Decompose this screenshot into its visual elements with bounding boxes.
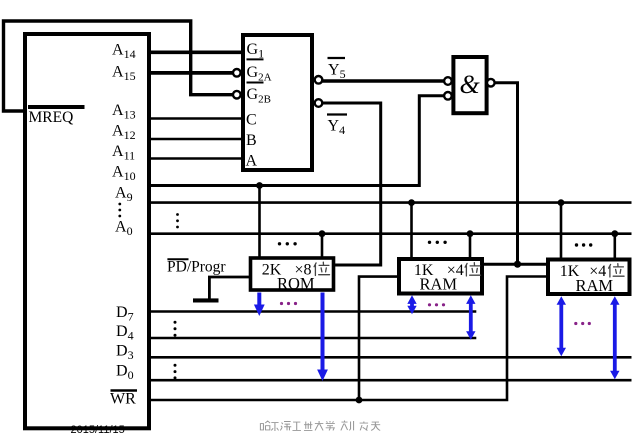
wire A14 to decoder G1	[149, 50, 243, 54]
RAM chip U6 box	[548, 260, 630, 295]
svg-text:WR: WR	[110, 391, 136, 408]
decoder pin label B	[246, 132, 257, 149]
svg-text:RAM: RAM	[420, 275, 458, 294]
wire A13 to decoder C	[149, 117, 243, 120]
net label Y4 (active low)	[327, 115, 347, 138]
inversion bubble at output Y4	[315, 99, 323, 107]
decoder pin label G1	[247, 41, 265, 61]
inversion bubble at G2A input	[233, 69, 241, 77]
ellipsis dots between D7 and D4 lines	[174, 321, 177, 337]
junction WR to RAM1 write enable	[356, 397, 363, 404]
wire WR up to RAM1 write enable	[359, 277, 399, 400]
ROM data arrow to D7	[254, 293, 265, 317]
ROM label ROM	[277, 274, 315, 293]
RAM1 data arrow to D4 (bidirectional)	[466, 295, 475, 340]
wire ROM PD pin to ground	[209, 277, 250, 299]
pin label D0	[116, 363, 134, 383]
pin label D3	[116, 343, 134, 363]
wire D0 bus line	[149, 379, 632, 382]
wire D7 bus line	[149, 310, 476, 313]
wire A10 bus line	[149, 184, 419, 187]
decoder pin label G2B (active low)	[247, 83, 271, 106]
net label PD/Progr (PD active low)	[167, 259, 226, 276]
svg-text:ROM: ROM	[277, 274, 315, 293]
wire AND output down to RAM chip selects	[494, 83, 517, 265]
wire Y4 from decoder down to ROM chip select	[322, 103, 381, 265]
inversion bubble AND output	[487, 79, 495, 87]
ground	[193, 298, 219, 302]
ROM label 2K x 8 bit	[262, 262, 330, 279]
pin label A10	[112, 164, 136, 184]
svg-text:MREQ: MREQ	[29, 109, 74, 126]
ellipsis dots below RAM2 (data)	[574, 322, 591, 325]
decoder pin label A	[246, 153, 258, 170]
wire A12 to decoder B	[149, 138, 243, 141]
svg-text:&: &	[460, 70, 481, 99]
junction A0 to ROM	[319, 230, 326, 237]
svg-text:RAM: RAM	[576, 276, 614, 295]
ROM data arrow to D0	[317, 293, 328, 382]
pin label A11	[112, 143, 135, 163]
junction A9 to RAM1	[408, 199, 415, 206]
ellipsis dots between A9 and A0 lines	[176, 213, 179, 228]
inversion bubble at output Y5	[315, 76, 323, 84]
wire A0 bus line	[149, 232, 632, 235]
junction A0 to RAM1	[467, 230, 474, 237]
wire chip select to RAM1 and RAM2	[482, 263, 549, 266]
pin label A14	[112, 42, 136, 62]
ROM chip U4 box	[251, 258, 334, 290]
junction A9 to RAM2	[558, 199, 565, 206]
wire A0 drop to RAM1	[469, 234, 472, 259]
junction A0 to RAM2	[611, 230, 618, 237]
wire D4 bus line	[149, 337, 476, 340]
CPU box U1	[25, 34, 149, 428]
wire A15 to decoder G2A	[149, 71, 233, 75]
ellipsis dots between D3 and D0 lines	[174, 364, 177, 380]
RAM2 data arrow to D0 (bidirectional)	[610, 296, 619, 379]
pin label A0	[115, 219, 133, 239]
wire A9 bus line	[149, 201, 632, 204]
pin label A13	[112, 102, 136, 122]
wire A9 drop to RAM1	[410, 203, 413, 259]
footer watermark text (CJK simplified strokes)	[260, 420, 380, 431]
footer date text	[71, 424, 125, 436]
svg-text:PD/Progr: PD/Progr	[167, 259, 226, 276]
junction at AND output / RAM selects	[514, 261, 521, 268]
wire A9 drop to RAM2	[560, 203, 563, 260]
inversion bubble AND input 2	[444, 92, 452, 100]
ellipsis dots above RAM2	[575, 243, 593, 246]
ellipsis dots below RAM1 (data)	[428, 303, 445, 306]
wire A0 drop to ROM	[321, 234, 324, 258]
RAM1 data arrow to D7 (bidirectional)	[407, 295, 416, 314]
wire D3 bus line	[149, 356, 632, 359]
wire WR bus line	[149, 277, 549, 401]
svg-text:C: C	[246, 112, 257, 129]
pin label WR (active low)	[110, 391, 137, 408]
inversion bubble AND input 1	[444, 77, 452, 85]
AND gate U3	[453, 57, 486, 113]
RAM1 label RAM	[420, 275, 458, 294]
ellipsis dots above ROM	[278, 242, 297, 245]
RAM chip U5 box	[399, 259, 482, 294]
svg-text:A: A	[246, 153, 258, 170]
pin label A15	[112, 64, 136, 84]
inversion bubble at G2B input	[233, 91, 241, 99]
pin label MREQ (active low)	[28, 107, 85, 126]
ellipsis dots above RAM1	[428, 241, 447, 244]
wire MREQ from CPU left edge up and over to decoder G2B	[4, 21, 233, 111]
wire A10 drop to ROM	[258, 186, 261, 259]
pin label D4	[116, 323, 134, 343]
RAM2 data arrow to D3 (bidirectional)	[557, 296, 566, 356]
RAM2 label 1K x 4 bit	[560, 263, 624, 280]
pin label A12	[112, 123, 136, 143]
pin label D7	[116, 304, 134, 324]
pin label A9	[115, 185, 133, 205]
net label Y5 (active low)	[328, 58, 346, 81]
RAM1 label 1K x 4 bit	[414, 262, 481, 279]
junction A10 to ROM	[256, 182, 263, 189]
svg-text:B: B	[246, 132, 257, 149]
wire from A10 line up to AND gate input 2	[419, 96, 444, 187]
wire A11 to decoder A	[149, 157, 243, 160]
decoder pin label G2A (active low)	[247, 59, 272, 83]
wire A0 drop to RAM2	[613, 234, 616, 260]
decoder pin label C	[246, 112, 257, 129]
decoder U2 (74LS138 style) box	[243, 35, 312, 170]
ellipsis dots below ROM (data)	[280, 302, 297, 305]
ellipsis dots inside CPU between A9 and A0	[118, 203, 121, 218]
wire Y5 from decoder to AND gate input 1	[323, 79, 444, 83]
RAM2 label RAM	[576, 276, 614, 295]
